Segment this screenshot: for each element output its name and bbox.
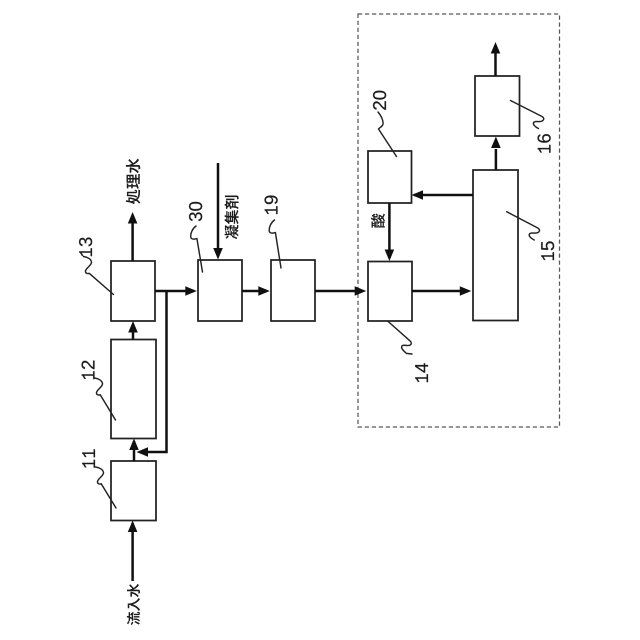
wire: box 15 to box 20 (414, 194, 473, 197)
label 16 (538, 134, 551, 153)
box 15 (473, 170, 518, 321)
label 15 (541, 241, 554, 260)
label 13 (79, 237, 92, 256)
label 11 leader (96, 467, 117, 508)
text acid 酸 (371, 214, 385, 228)
box 14 (368, 262, 412, 322)
box 12 (111, 340, 156, 439)
wire: box 12 to box 13 (132, 324, 135, 340)
wire: box 13 to treated-water outlet (131, 222, 134, 261)
wire: box 13 to box 30 (155, 290, 194, 293)
box 20 (368, 151, 412, 203)
wire: recycle return line (140, 290, 167, 452)
wire: acid from box 20 into box 14 (388, 203, 391, 258)
label 20 (373, 91, 386, 110)
label 15 leader (507, 212, 540, 240)
dashed subsystem boundary (358, 14, 560, 427)
text treated water 処理水 (126, 159, 140, 205)
label 30 leader (191, 226, 203, 272)
wire: flocculant feed into box 30 (217, 163, 220, 256)
label 19 (265, 196, 278, 215)
text flocculant 凝集剤 (225, 196, 239, 240)
box 11 (111, 461, 156, 521)
wire: box 11 to box 12 (133, 441, 136, 461)
box 30 (198, 260, 242, 321)
label 14 leader (388, 321, 412, 354)
label 30 (189, 202, 202, 221)
box 13 (111, 261, 155, 321)
label 20 leader (378, 112, 397, 157)
label 12 (82, 361, 95, 379)
wire: box 30 to box 19 (242, 290, 267, 293)
box 16 (475, 76, 520, 136)
box 19 (271, 260, 315, 321)
label 13 leader (84, 257, 114, 295)
wire: box 15 to box 16 (495, 149, 498, 170)
text inflow water 流入水 (127, 584, 140, 625)
wire: box 14 to box 15 (412, 290, 468, 293)
label 19 leader (269, 220, 281, 268)
wire: box 16 outlet (494, 53, 497, 76)
wire: box 19 to box 14 (315, 290, 363, 293)
wire: inflow into box 11 (131, 523, 134, 581)
label 11 (82, 449, 95, 467)
label 16 leader (511, 101, 544, 129)
label 12 leader (95, 378, 116, 420)
label 14 (415, 363, 428, 382)
